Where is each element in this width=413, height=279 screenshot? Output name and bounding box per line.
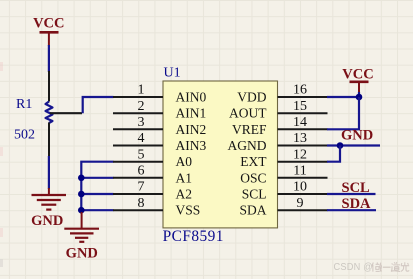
junction GND net (337, 142, 344, 149)
svg-text:1: 1 (138, 83, 145, 98)
resistor R1 pin 1 (top) (48, 71, 50, 102)
ground symbol GND (left, under R1) (31, 188, 66, 229)
pin 1 AIN0 (113, 96, 163, 98)
junction pin 8 (78, 207, 85, 214)
svg-text:A2: A2 (176, 187, 193, 202)
junction VCC node (356, 94, 363, 101)
ground symbol GND (center, under A0/A1/A2/VSS) (64, 212, 99, 261)
svg-text:502: 502 (14, 128, 35, 143)
svg-text:AIN3: AIN3 (176, 138, 207, 153)
pin 3 AIN2 (113, 128, 163, 130)
svg-text:5: 5 (138, 147, 145, 162)
pin 4 AIN3 (113, 145, 163, 147)
svg-text:GND: GND (31, 213, 63, 229)
svg-text:15: 15 (293, 99, 307, 114)
wire VCC node down to VREF (327, 97, 359, 129)
svg-text:AOUT: AOUT (229, 106, 267, 121)
wire wiper to AIN0 (83, 97, 114, 113)
svg-text:EXT: EXT (240, 154, 267, 169)
svg-text:PCF8591: PCF8591 (163, 228, 224, 245)
wire AGND net (327, 144, 380, 146)
resistor R1 pin 2 (bottom) (48, 123, 50, 158)
svg-text:GND: GND (341, 128, 373, 144)
svg-text:14: 14 (293, 115, 307, 130)
junction pin 6 (78, 175, 85, 182)
svg-text:4: 4 (138, 131, 145, 146)
svg-text:11: 11 (293, 164, 306, 179)
power symbol VCC (left) (33, 16, 64, 46)
power symbol VCC (right) (342, 66, 373, 92)
wire EXT up to GND net (327, 146, 340, 162)
watermark glyph 一 (383, 266, 391, 268)
watermark glyph 光 (401, 262, 409, 271)
svg-text:SDA: SDA (239, 203, 266, 218)
svg-text:CSDN @: CSDN @ (334, 262, 373, 274)
svg-text:7: 7 (138, 180, 145, 195)
wire VCC drop to pin16 (358, 92, 360, 97)
svg-text:16: 16 (293, 83, 307, 98)
svg-text:AIN1: AIN1 (176, 106, 207, 121)
pin 8 VSS (113, 209, 163, 211)
resistor R1 body (zigzag) (46, 102, 53, 124)
svg-text:R1: R1 (16, 97, 32, 112)
svg-text:A0: A0 (176, 154, 193, 169)
pin 15 AOUT (278, 112, 328, 114)
wire A1 (pin 6) (81, 177, 113, 179)
resistor R1 wiper pin (50, 112, 82, 114)
wire pin16 to VCC node (327, 96, 359, 98)
svg-text:A1: A1 (176, 170, 193, 185)
wire SDA (327, 209, 376, 211)
pin 2 AIN1 (113, 112, 163, 114)
svg-text:9: 9 (297, 196, 304, 211)
svg-text:10: 10 (293, 180, 307, 195)
svg-text:VCC: VCC (33, 16, 64, 32)
op IC U1 PCF8591 body (163, 81, 278, 228)
watermark CSDN (334, 262, 410, 274)
watermark glyph 做 (372, 262, 382, 271)
svg-text:SCL: SCL (242, 187, 267, 202)
svg-text:VDD: VDD (237, 90, 266, 105)
wire R1 bottom to GND (48, 156, 50, 189)
svg-text:8: 8 (138, 196, 145, 211)
junction pin 7 (78, 191, 85, 198)
svg-text:VSS: VSS (176, 203, 201, 218)
svg-text:3: 3 (138, 115, 145, 130)
svg-text:13: 13 (293, 131, 307, 146)
pin 6 A1 (113, 177, 163, 179)
svg-text:U1: U1 (164, 66, 181, 81)
svg-text:6: 6 (138, 164, 145, 179)
svg-text:VCC: VCC (342, 66, 373, 82)
pin 11 OSC (278, 177, 328, 179)
svg-text:OSC: OSC (240, 170, 266, 185)
pin 5 A0 (113, 161, 163, 163)
wire A0 net (pin 5) (81, 162, 113, 214)
svg-text:AIN2: AIN2 (176, 122, 207, 137)
svg-text:12: 12 (293, 147, 307, 162)
pin 9 SDA (278, 209, 328, 211)
wire VSS (pin 8) (81, 209, 113, 211)
pin 10 SCL (278, 193, 328, 195)
pin 13 AGND (278, 145, 328, 147)
wire VCC to R1 top (48, 45, 50, 72)
svg-text:VREF: VREF (232, 122, 267, 137)
pin 16 VDD (278, 96, 328, 98)
svg-text:2: 2 (138, 99, 145, 114)
wire A2 (pin 7) (81, 193, 113, 195)
wire SCL (327, 193, 376, 195)
svg-text:GND: GND (66, 245, 98, 261)
svg-text:AIN0: AIN0 (176, 90, 207, 105)
watermark edge marks (0, 62, 3, 267)
svg-text:AGND: AGND (228, 138, 267, 153)
pin 14 VREF (278, 128, 328, 130)
watermark glyph 道 (391, 262, 400, 271)
pin 7 A2 (113, 193, 163, 195)
pin 12 EXT (278, 161, 328, 163)
